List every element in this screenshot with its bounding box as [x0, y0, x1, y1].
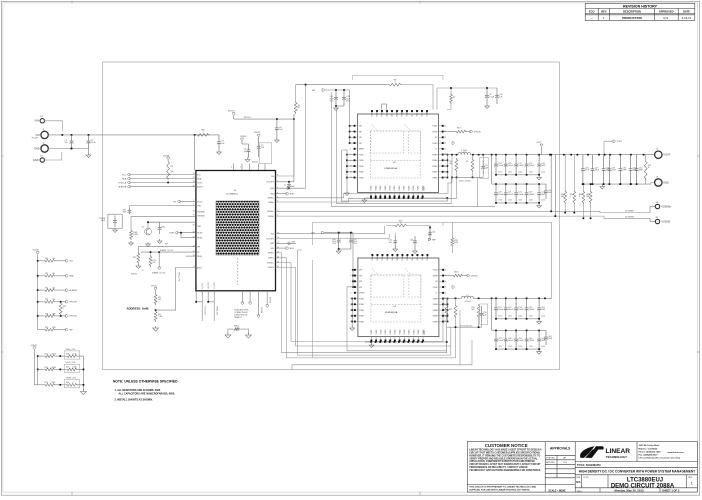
U2 bottom ground	[364, 197, 371, 199]
wire VSENSE0- long	[276, 216, 651, 218]
resistor R26 pullup to GPIO1B	[37, 315, 39, 317]
U1 dashed center line	[237, 258, 239, 285]
svg-text:DRVH: DRVH	[433, 275, 439, 277]
svg-text:PGND: PGND	[385, 185, 387, 191]
svg-text:R28: R28	[45, 327, 48, 329]
svg-text:R58: R58	[66, 353, 69, 355]
svg-text:GND: GND	[34, 147, 40, 150]
svg-text:RUN0: RUN0	[197, 233, 202, 235]
svg-text:PGND: PGND	[408, 185, 410, 191]
svg-text:100uF: 100uF	[529, 309, 535, 311]
svg-text:2: 2	[400, 223, 401, 225]
svg-text:ALERT: ALERT	[197, 185, 204, 188]
svg-text:VTRIM_CFG: VTRIM_CFG	[216, 306, 218, 316]
svg-text:0.1uF: 0.1uF	[91, 142, 97, 144]
svg-text:PGND: PGND	[432, 126, 438, 128]
svg-text:1630 McCarthy Blvd.: 1630 McCarthy Blvd.	[639, 444, 660, 447]
svg-text:C36: C36	[161, 226, 164, 228]
svg-text:8: 8	[277, 175, 278, 177]
resistor network R51/R58 FREQ_CFG	[37, 355, 39, 357]
svg-text:4.64K: 4.64K	[133, 234, 138, 236]
resistor R13 wp pulldown	[138, 247, 148, 252]
power module U2 FDMF6824A channel 0	[358, 114, 439, 193]
svg-text:BOOST1: BOOST1	[267, 238, 275, 240]
svg-text:2: 2	[394, 82, 395, 84]
svg-text:TECHNOLOGY APPLICATIONS ENGINE: TECHNOLOGY APPLICATIONS ENGINEERING FOR …	[469, 469, 541, 472]
svg-text:3-13-13: 3-13-13	[682, 16, 692, 20]
wire TSNS0A	[131, 216, 196, 218]
share clock net arrow down	[158, 252, 160, 267]
svg-text:LTC3880EUJ: LTC3880EUJ	[226, 194, 238, 196]
svg-text:VSWH: VSWH	[432, 154, 438, 156]
input caps ground ch1	[339, 248, 351, 250]
capacitor C1	[71, 135, 73, 141]
svg-text:CGND: CGND	[433, 287, 439, 289]
svg-text:CL: CL	[435, 149, 437, 151]
wire BOOST1	[276, 234, 390, 239]
resistor R66 gpio bridge	[60, 301, 62, 303]
wire gnd small	[44, 152, 62, 160]
svg-text:PGND: PGND	[404, 329, 406, 335]
U2 left VIN bus	[349, 90, 351, 143]
svg-text:PGND: PGND	[404, 185, 406, 191]
svg-text:PGND: PGND	[390, 185, 392, 191]
wire BG1 arrow	[276, 247, 287, 249]
svg-text:ITH0: ITH0	[197, 205, 201, 207]
svg-text:VDD33: VDD33	[131, 273, 137, 275]
wire tg0 riser	[293, 114, 295, 119]
ASEL wire from divider	[156, 268, 196, 311]
svg-text:J3: J3	[656, 149, 658, 151]
resistor R11 asel top	[155, 290, 157, 293]
svg-text:REV: REV	[601, 9, 607, 13]
svg-text:TSNS0A: TSNS0A	[197, 211, 205, 214]
svg-text:4: 4	[231, 167, 232, 169]
ch1 vout riser	[443, 222, 552, 298]
GPIO0B resistor from U2 DRVH	[444, 131, 455, 133]
U2 VSWH bus ch0	[446, 155, 448, 178]
svg-text:35: 35	[193, 225, 195, 227]
svg-text:BG1: BG1	[271, 248, 275, 250]
U3 right pin arrows	[452, 286, 455, 288]
svg-text:40: 40	[444, 269, 446, 271]
svg-text:DESCRIPTION: DESCRIPTION	[623, 9, 641, 13]
title block	[467, 442, 697, 493]
svg-text:37: 37	[193, 215, 195, 217]
wire SW0 with arrow	[276, 187, 306, 189]
svg-text:1210: 1210	[508, 346, 512, 348]
svg-text:VERIFY PROPER AND RELIABLE OPE: VERIFY PROPER AND RELIABLE OPERATION IN …	[469, 457, 538, 460]
svg-text:VT0_CFG: VT0_CFG	[208, 281, 210, 289]
svg-text:SYNC_A: SYNC_A	[118, 181, 127, 184]
resistor R24 pullup to GPIO0B	[37, 301, 39, 303]
svg-text:10k: 10k	[52, 273, 55, 275]
resistor R35 ch1 right	[451, 237, 454, 248]
svg-text:PGND: PGND	[418, 185, 420, 191]
ground for input caps	[88, 149, 90, 154]
VIN net arrow ch1	[322, 231, 325, 233]
resistor R4 sync pullup	[167, 160, 170, 180]
svg-text:36: 36	[277, 252, 279, 254]
svg-text:VSWH: VSWH	[432, 172, 438, 174]
svg-text:1210: 1210	[518, 172, 522, 174]
svg-text:27: 27	[193, 177, 195, 179]
svg-text:PGND: PGND	[359, 154, 365, 156]
svg-text:FDMF6824A: FDMF6824A	[385, 311, 398, 314]
svg-text:REV.: REV.	[688, 477, 693, 479]
svg-text:27: 27	[444, 292, 446, 294]
svg-text:TITLE: SCHEMATIC: TITLE: SCHEMATIC	[577, 463, 601, 467]
svg-text:PWM: PWM	[382, 112, 384, 117]
svg-text:NEAR U2: NEAR U2	[234, 316, 241, 319]
svg-text:SCL: SCL	[197, 174, 201, 176]
ch1 return loop 1	[347, 287, 447, 351]
ch0 return loop 1	[342, 150, 448, 201]
svg-text:ALERTB: ALERTB	[70, 289, 78, 292]
svg-text:7.68k: 7.68k	[158, 316, 162, 318]
wire VSENSE1+ down	[276, 263, 444, 342]
resistor R1A	[130, 217, 132, 229]
U2 pgnd ground	[346, 191, 348, 193]
svg-text:1210: 1210	[508, 200, 512, 202]
dcr sense network ch0	[455, 158, 458, 172]
net arrow RUN	[175, 232, 178, 234]
svg-text:100uF: 100uF	[498, 340, 504, 342]
svg-text:(2) VSNSN: (2) VSNSN	[625, 216, 635, 218]
right cap bank ch0	[582, 155, 584, 169]
svg-text:THIS CIRCUIT IS PROPRIETARY TO: THIS CIRCUIT IS PROPRIETARY TO LINEAR TE…	[469, 486, 536, 489]
svg-text:PGND: PGND	[359, 172, 365, 174]
cap bank ch1 row2	[491, 298, 493, 330]
terminal J4 GND out	[646, 183, 655, 185]
svg-text:ADDRESS: 0x4B: ADDRESS: 0x4B	[127, 307, 149, 311]
U3 left VIN bus	[352, 233, 354, 287]
svg-text:APPROVALS: APPROVALS	[550, 447, 571, 451]
terminal E2 GND small	[40, 158, 44, 162]
svg-text:REVISION HISTORY: REVISION HISTORY	[623, 4, 658, 8]
wire inductor1 out	[473, 297, 491, 299]
svg-text:30.9k: 30.9k	[52, 367, 56, 369]
terminal J1 VIN banana	[41, 131, 48, 138]
svg-text:VSWH: VSWH	[359, 149, 365, 151]
svg-text:PGND: PGND	[359, 321, 365, 323]
svg-text:IC NO.: IC NO.	[584, 477, 590, 479]
wire VIN rail	[48, 134, 213, 136]
ch0 return loop 3	[332, 92, 495, 207]
svg-text:DRVH: DRVH	[433, 131, 439, 133]
capacitor C5 vdd25	[258, 137, 260, 147]
svg-text:VDD33: VDD33	[254, 132, 260, 134]
svg-text:PGND: PGND	[381, 329, 383, 335]
svg-text:ALERTB: ALERTB	[118, 185, 126, 188]
svg-text:TSNS0B: TSNS0B	[197, 216, 205, 218]
svg-text:VOUT: VOUT	[617, 141, 623, 143]
svg-text:GPIO1B: GPIO1B	[471, 275, 478, 277]
capacitor C9 vcin	[486, 88, 488, 95]
svg-text:R34 0: R34 0	[454, 272, 459, 274]
U2 top support parts	[381, 104, 383, 110]
svg-text:www.linear.com: www.linear.com	[668, 452, 684, 454]
ch0 vout bus	[492, 154, 560, 156]
capacitor C41 22uF ch1	[350, 233, 352, 241]
net arrow SCL	[127, 173, 130, 175]
svg-text:0: 0	[63, 308, 64, 310]
svg-text:BG0: BG0	[271, 194, 275, 196]
svg-text:PCB DES.: PCB DES.	[546, 458, 555, 460]
svg-text:865: 865	[472, 309, 475, 311]
svg-text:10k: 10k	[52, 299, 55, 301]
frame tick marks	[71, 1, 73, 4]
inductor L1	[462, 296, 474, 298]
svg-text:100uF: 100uF	[508, 309, 514, 311]
svg-text:VSWH: VSWH	[432, 166, 438, 168]
svg-text:VSWH: VSWH	[433, 310, 439, 312]
svg-text:5: 5	[240, 167, 241, 169]
svg-text:28: 28	[444, 143, 446, 145]
svg-text:VSWH: VSWH	[433, 304, 439, 306]
svg-text:ISNS0+: ISNS0+	[268, 198, 275, 200]
svg-text:100uF: 100uF	[508, 194, 514, 196]
svg-text:GPIO0B: GPIO0B	[474, 131, 481, 133]
svg-text:PGND: PGND	[413, 185, 415, 191]
svg-text:12: 12	[277, 232, 279, 234]
net arrow PG pgood	[180, 201, 196, 203]
svg-text:VOUT_CFG: VOUT_CFG	[204, 306, 206, 315]
svg-text:0: 0	[570, 196, 571, 198]
ch0 upper boundary wire	[352, 75, 443, 80]
power module U3 FDMF6824A channel 1	[358, 258, 439, 337]
svg-text:SHARE_CLOCK: SHARE_CLOCK	[160, 249, 174, 252]
svg-text:10k: 10k	[52, 288, 55, 290]
grounds under tsns cluster	[130, 241, 132, 243]
svg-text:30: 30	[277, 266, 279, 268]
terminal J2 GND banana	[41, 145, 48, 152]
config pin pair links	[196, 296, 214, 321]
U3 bottom pin bus	[371, 341, 424, 343]
resistor network R53/R60 VTRIM_CFG	[38, 384, 44, 386]
svg-text:10k: 10k	[52, 258, 55, 260]
svg-text:1210: 1210	[541, 172, 545, 174]
wire to module boot pin	[402, 85, 433, 110]
ref net arrow ch1	[428, 238, 431, 240]
svg-text:SW1: SW1	[270, 243, 274, 245]
resistor R22 ch1 gate	[394, 224, 408, 227]
svg-text:VSWH: VSWH	[359, 293, 365, 295]
svg-text:20k: 20k	[158, 299, 161, 301]
svg-text:CIRCUIT BOARD LAYOUT MAY SIGNI: CIRCUIT BOARD LAYOUT MAY SIGNIFICANTLY A…	[469, 463, 541, 466]
svg-text:0.15uH: 0.15uH	[465, 301, 471, 303]
svg-text:L1: L1	[466, 295, 468, 297]
capacitor C35 ith	[128, 206, 130, 209]
svg-text:0: 0	[73, 382, 74, 384]
svg-text:C43: C43	[410, 240, 413, 242]
svg-text:SW1: SW1	[292, 241, 296, 243]
svg-text:GL: GL	[412, 114, 414, 116]
resistor R2 boost	[294, 101, 297, 114]
svg-text:V0_CFG: V0_CFG	[196, 282, 198, 289]
svg-text:BOOST0: BOOST0	[267, 182, 275, 184]
svg-text:FREQ_CFG: FREQ_CFG	[177, 272, 179, 282]
svg-text:26: 26	[193, 173, 195, 175]
svg-text:1210: 1210	[541, 200, 545, 202]
capacitor C3 on vin rail	[213, 134, 219, 136]
svg-text:0.1uF: 0.1uF	[489, 96, 495, 98]
svg-text:DATE: DATE	[683, 9, 690, 13]
wire ISNS0-	[276, 177, 457, 202]
wire ISNS0+	[276, 177, 453, 197]
net arrow SYNC_A	[127, 181, 130, 183]
svg-text:1210: 1210	[518, 346, 522, 348]
svg-text:2: 2	[277, 215, 278, 217]
svg-text:ISNS0-: ISNS0-	[268, 202, 274, 204]
svg-text:Q1: Q1	[142, 227, 144, 229]
svg-text:PGND: PGND	[371, 329, 373, 335]
main schematic boundary box channel 0	[103, 62, 560, 370]
wire TG0	[276, 119, 294, 176]
wire VSENSE1- down	[276, 267, 451, 346]
svg-text:INTVCC: INTVCC	[244, 117, 252, 119]
capacitor C7 boost0	[288, 182, 290, 185]
svg-text:R2: R2	[298, 107, 300, 109]
GPIO1B resistor from U3 DRVH	[444, 275, 452, 277]
svg-text:R16: R16	[45, 258, 48, 260]
svg-text:39pF: 39pF	[123, 212, 127, 214]
svg-text:1210: 1210	[353, 243, 357, 245]
capacitor C36 tsns	[159, 222, 161, 227]
svg-text:R59: R59	[66, 367, 69, 369]
svg-text:V1_CFG: V1_CFG	[202, 282, 204, 289]
svg-text:SW0: SW0	[270, 188, 274, 190]
svg-text:100uF: 100uF	[498, 194, 504, 196]
svg-text:10k: 10k	[171, 171, 174, 173]
wire BG0 arrow	[276, 193, 287, 195]
transistor Q1	[145, 228, 152, 235]
svg-text:BOOT: BOOT	[397, 256, 399, 261]
U1 bottom gnd pins with arrows	[241, 291, 243, 302]
svg-text:PGND: PGND	[376, 329, 378, 335]
svg-text:HOWEVER, IT REMAINS THE CUSTOM: HOWEVER, IT REMAINS THE CUSTOMER'S RESPO…	[469, 454, 540, 457]
svg-text:ITH1: ITH1	[197, 226, 201, 228]
svg-text:29: 29	[444, 137, 446, 139]
U3 pgnd ground	[351, 326, 353, 328]
svg-text:VSWH: VSWH	[433, 316, 439, 318]
wire sw1 to inductor	[448, 297, 462, 299]
svg-text:GPIO0B: GPIO0B	[70, 302, 78, 304]
svg-text:2. INSTALL SHUNTS AS SHOWN.: 2. INSTALL SHUNTS AS SHOWN.	[115, 399, 153, 402]
Linear Technology logo	[580, 446, 604, 458]
svg-text:VDD25: VDD25	[252, 162, 258, 164]
svg-text:PGND: PGND	[359, 304, 365, 306]
svg-text:SHEET 1 OF 2: SHEET 1 OF 2	[662, 489, 680, 493]
svg-text:R.S.: R.S.	[564, 462, 568, 464]
svg-text:APPLICATION. COMPONENT SUBSTI: APPLICATION. COMPONENT SUBSTITUTION AND …	[469, 460, 535, 463]
svg-text:SDA: SDA	[122, 177, 127, 180]
svg-text:R37: R37	[449, 309, 452, 311]
svg-text:VOUT_CFG: VOUT_CFG	[66, 362, 76, 364]
U1 top pin stubs	[233, 164, 235, 171]
svg-text:J1: J1	[42, 129, 44, 131]
svg-text:1210: 1210	[508, 172, 512, 174]
cap bank ch0 row2	[491, 155, 493, 184]
svg-text:RUN1: RUN1	[197, 237, 202, 239]
svg-text:APP ENG.: APP ENG.	[546, 461, 555, 464]
svg-text:100uF: 100uF	[508, 165, 514, 167]
svg-text:R53: R53	[45, 382, 48, 384]
svg-text:CGND: CGND	[432, 143, 438, 145]
svg-text:DATE:: DATE:	[577, 490, 583, 493]
sense wires to terminals	[565, 204, 590, 218]
svg-text:1: 1	[690, 482, 692, 486]
svg-text:1: 1	[277, 210, 278, 212]
resistor network R52/R59 VOUT_CFG	[37, 369, 39, 371]
config net vertical	[83, 356, 85, 390]
svg-text:NOTE: UNLESS OTHERWISE SPECIFI: NOTE: UNLESS OTHERWISE SPECIFIED	[113, 380, 178, 384]
svg-text:PGND: PGND	[399, 185, 401, 191]
svg-text:R13: R13	[133, 257, 136, 259]
wire SW1 arrow	[276, 242, 297, 244]
svg-text:1k: 1k	[648, 167, 650, 169]
svg-text:R8 0: R8 0	[457, 128, 461, 130]
svg-text:38: 38	[193, 211, 195, 213]
sense resistors below	[564, 155, 566, 190]
svg-text:GPIO1B: GPIO1B	[269, 297, 271, 303]
svg-text:VSWH: VSWH	[433, 298, 439, 300]
svg-text:R52: R52	[45, 367, 48, 369]
svg-text:29: 29	[444, 281, 446, 283]
svg-text:RESL: RESL	[197, 256, 202, 258]
svg-text:1: 1	[202, 132, 203, 134]
svg-text:CL: CL	[436, 293, 438, 295]
svg-text:CIRCUIT THAT MEETS CUSTOMER-SU: CIRCUIT THAT MEETS CUSTOMER-SUPPLIED SPE…	[469, 451, 540, 454]
svg-text:FREQ_CFG: FREQ_CFG	[66, 349, 76, 351]
terminal J3 VOUT	[649, 154, 655, 156]
wire vin small to rail	[44, 121, 62, 131]
svg-text:ECO: ECO	[589, 9, 595, 13]
svg-text:10k: 10k	[153, 262, 156, 264]
svg-text:SUPPLIED FOR USE WITH LINEAR T: SUPPLIED FOR USE WITH LINEAR TECHNOLOGY …	[469, 488, 530, 491]
svg-text:RUN: RUN	[170, 233, 175, 235]
U2 right pin arrows	[452, 142, 455, 144]
svg-text:1210: 1210	[529, 172, 533, 174]
svg-text:35: 35	[277, 257, 279, 259]
svg-text:Fax: (408)434-0507: Fax: (408)434-0507	[639, 453, 659, 456]
svg-text:LINEAR TECHNOLOGY HAS MADE A B: LINEAR TECHNOLOGY HAS MADE A BEST EFFORT…	[469, 448, 542, 451]
svg-text:0: 0	[579, 196, 580, 198]
resistor R86 sgnd bridge	[233, 328, 241, 331]
svg-text:PGND: PGND	[394, 185, 396, 191]
svg-text:R.S.: R.S.	[663, 16, 669, 20]
svg-text:10: 10	[298, 105, 300, 107]
wire INTVCC rail	[233, 115, 235, 119]
wire vin to U1 pin	[194, 135, 196, 171]
U3 bottom ground	[365, 341, 371, 343]
svg-text:VSWH: VSWH	[433, 321, 439, 323]
revision history table	[585, 3, 695, 20]
wire TSNS0B	[148, 221, 196, 223]
wire sw to inductor	[447, 154, 458, 156]
svg-text:5: 5	[277, 201, 278, 203]
capacitor C10 vdrv	[496, 88, 498, 95]
dcr sense network ch1	[445, 304, 448, 318]
svg-text:17.4k: 17.4k	[73, 353, 77, 355]
svg-text:PGD0: PGD0	[197, 201, 202, 203]
wire ITH0	[129, 205, 196, 207]
svg-text:VDD33: VDD33	[240, 136, 246, 138]
svg-text:PWM: PWM	[382, 256, 384, 261]
gpio bottom wires	[258, 291, 260, 315]
svg-text:1210: 1210	[346, 100, 350, 102]
svg-text:18.2k: 18.2k	[52, 354, 56, 356]
